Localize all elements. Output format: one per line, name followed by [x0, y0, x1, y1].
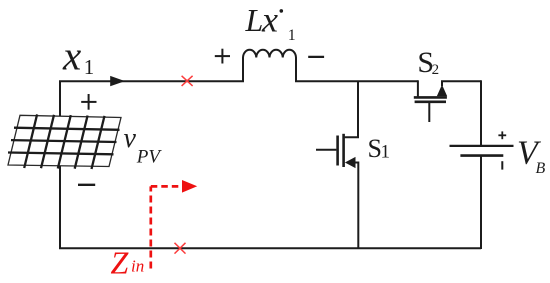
MOSFET S2 gate lead	[428, 102, 430, 122]
svg-text:x: x	[62, 32, 81, 78]
wire: right rail bottom (battery to bottom rail)	[480, 156, 482, 249]
battery minus tick	[501, 161, 503, 169]
inductor plus sign	[215, 49, 230, 64]
label S1	[368, 134, 391, 163]
label vPV	[124, 123, 163, 167]
PV panel array	[8, 114, 121, 169]
wire: top rail from PV to inductor	[59, 80, 244, 82]
svg-text:1: 1	[288, 27, 296, 44]
svg-text:in: in	[131, 257, 144, 276]
svg-text:v: v	[124, 123, 137, 154]
MOSFET S2 gate bar	[415, 101, 446, 104]
battery VB long plate	[450, 145, 514, 147]
svg-text:1: 1	[84, 55, 95, 79]
svg-text:1: 1	[381, 142, 391, 163]
svg-text:L: L	[245, 2, 264, 38]
MOSFET S1 source wire	[355, 163, 358, 249]
wire: bottom rail	[59, 247, 481, 249]
red cut mark X on top rail	[182, 76, 193, 86]
MOSFET S1 gate lead	[316, 149, 336, 151]
label Zin	[111, 245, 145, 281]
wire: right rail top (S2 to battery)	[480, 80, 482, 146]
MOSFET S1 source arrow	[345, 157, 356, 168]
Zin dashed measurement arrow	[151, 186, 183, 268]
red cut mark X on bottom rail	[175, 243, 186, 254]
svg-text:x: x	[261, 0, 278, 39]
MOSFET S1 drain wire	[345, 81, 358, 137]
battery plus sign	[498, 131, 506, 139]
MOSFET S1 gate bar	[336, 136, 339, 166]
svg-text:Z: Z	[111, 245, 130, 281]
inductor L	[243, 50, 296, 81]
MOSFET S2 channel bar	[414, 96, 447, 99]
inductor minus sign	[308, 56, 324, 58]
wire: PV positive lead (left rail top)	[59, 81, 61, 116]
svg-text:PV: PV	[136, 147, 163, 168]
MOSFET S1 channel bar	[342, 134, 345, 167]
label L x-dot 1	[245, 0, 296, 44]
wire: PV negative lead (left rail bottom)	[59, 166, 61, 249]
battery VB short plate	[460, 154, 503, 157]
label VB	[517, 135, 546, 178]
svg-text:2: 2	[432, 62, 440, 78]
MOSFET S2 drain wire	[442, 81, 481, 86]
current direction arrowhead x1	[110, 76, 125, 86]
PV plus sign	[81, 94, 96, 110]
PV minus sign	[78, 184, 95, 186]
svg-text:B: B	[536, 160, 546, 177]
Zin arrowhead	[182, 180, 197, 193]
MOSFET S2 drain arrow	[437, 85, 447, 97]
wire: top rail inductor to S2 source	[295, 80, 418, 82]
MOSFET S2 source riser	[417, 80, 419, 96]
label S2	[417, 46, 439, 79]
label x1	[62, 32, 94, 79]
